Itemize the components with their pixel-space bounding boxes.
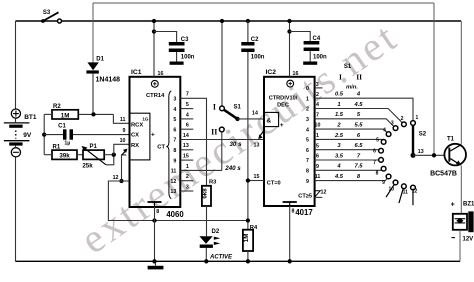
svg-text:13: 13 — [418, 149, 424, 155]
svg-text:7.5: 7.5 — [354, 164, 363, 170]
svg-text:9: 9 — [173, 158, 176, 164]
svg-text:12V: 12V — [463, 236, 474, 242]
svg-text:11: 11 — [120, 117, 126, 123]
svg-text:I: I — [339, 73, 342, 82]
svg-text:8: 8 — [306, 169, 309, 175]
svg-text:4017: 4017 — [295, 208, 312, 217]
svg-text:11: 11 — [315, 174, 321, 180]
svg-text:+: + — [151, 131, 155, 138]
svg-text:3: 3 — [391, 121, 394, 127]
svg-text:7: 7 — [306, 158, 309, 164]
svg-text:S3: S3 — [43, 10, 51, 16]
svg-text:9V: 9V — [23, 132, 32, 139]
svg-text:5: 5 — [186, 102, 189, 108]
svg-text:15: 15 — [183, 154, 189, 160]
svg-text:R3: R3 — [209, 179, 217, 185]
svg-text:RCX: RCX — [131, 123, 143, 129]
svg-text:5: 5 — [306, 138, 309, 144]
svg-text:11: 11 — [171, 169, 177, 175]
svg-text:5: 5 — [376, 137, 379, 143]
svg-text:1µ: 1µ — [64, 141, 70, 147]
svg-text:2: 2 — [186, 174, 189, 180]
svg-text:1M: 1M — [243, 234, 250, 243]
svg-text:4.5: 4.5 — [353, 102, 363, 108]
svg-text:16: 16 — [158, 71, 164, 77]
svg-text:S2: S2 — [419, 131, 427, 137]
svg-text:4060: 4060 — [166, 210, 184, 219]
svg-text:1: 1 — [316, 133, 319, 139]
svg-text:II: II — [356, 73, 362, 82]
svg-text:ACTIVE: ACTIVE — [209, 255, 233, 261]
svg-text:30 s: 30 s — [229, 141, 242, 148]
svg-text:13: 13 — [183, 143, 189, 149]
svg-text:25k: 25k — [82, 163, 93, 170]
svg-text:100n: 100n — [313, 54, 327, 60]
svg-text:5: 5 — [173, 117, 176, 123]
svg-text:BT1: BT1 — [24, 114, 37, 121]
svg-text:3: 3 — [316, 82, 319, 88]
svg-text:6k8: 6k8 — [202, 188, 209, 199]
svg-text:9: 9 — [382, 180, 385, 186]
svg-text:3.5: 3.5 — [335, 153, 344, 159]
svg-text:D2: D2 — [212, 229, 220, 235]
svg-text:C4: C4 — [313, 36, 321, 42]
svg-text:BZ1: BZ1 — [463, 202, 474, 208]
svg-text:9: 9 — [123, 128, 126, 134]
svg-text:RX: RX — [131, 143, 139, 149]
svg-text:CX: CX — [131, 133, 139, 139]
svg-text:CTR14: CTR14 — [146, 93, 165, 99]
svg-text:II: II — [211, 128, 217, 137]
svg-text:10: 10 — [315, 123, 321, 129]
svg-text:1N4148: 1N4148 — [96, 77, 121, 84]
svg-text:100n: 100n — [251, 54, 265, 60]
svg-text:11: 11 — [403, 190, 409, 196]
svg-text:240 s: 240 s — [224, 165, 241, 172]
svg-text:12: 12 — [113, 175, 119, 181]
svg-text:6.5: 6.5 — [354, 143, 363, 149]
svg-text:D1: D1 — [96, 57, 104, 63]
svg-text:2: 2 — [401, 116, 404, 122]
svg-text:4: 4 — [383, 128, 386, 134]
svg-text:10: 10 — [120, 138, 126, 144]
svg-text:8: 8 — [173, 148, 176, 154]
svg-text:2.5: 2.5 — [334, 133, 344, 139]
svg-text:3: 3 — [186, 184, 189, 190]
svg-text:DEC: DEC — [277, 102, 289, 108]
svg-text:CT: CT — [157, 145, 165, 151]
svg-text:13: 13 — [254, 142, 260, 148]
svg-text:9: 9 — [316, 164, 319, 170]
svg-text:12: 12 — [321, 189, 327, 195]
svg-text:4: 4 — [316, 102, 319, 108]
svg-text:3: 3 — [173, 97, 176, 103]
svg-text:4: 4 — [186, 112, 189, 118]
svg-text:5: 5 — [316, 143, 319, 149]
svg-text:100n: 100n — [181, 54, 195, 60]
svg-text:I: I — [213, 102, 216, 111]
svg-text:2: 2 — [316, 92, 319, 98]
svg-text:6: 6 — [186, 123, 189, 129]
svg-text:1M: 1M — [61, 112, 70, 119]
svg-text:1: 1 — [186, 164, 189, 170]
svg-text:C1: C1 — [58, 123, 66, 129]
svg-text:9: 9 — [306, 179, 309, 185]
svg-text:10: 10 — [389, 186, 395, 192]
svg-text:13: 13 — [170, 189, 176, 195]
svg-text:14: 14 — [252, 111, 258, 117]
svg-text:BC547B: BC547B — [430, 171, 457, 178]
svg-text:12: 12 — [412, 188, 418, 194]
svg-text:1: 1 — [337, 102, 340, 108]
svg-text:C3: C3 — [181, 37, 189, 43]
svg-text:6: 6 — [316, 154, 319, 160]
svg-text:0: 0 — [306, 86, 309, 92]
svg-text:S1: S1 — [344, 64, 352, 70]
svg-text:14: 14 — [183, 133, 189, 139]
svg-text:15: 15 — [254, 174, 260, 180]
svg-text:7: 7 — [186, 92, 189, 98]
svg-text:+: + — [451, 202, 455, 209]
svg-text:C2: C2 — [251, 37, 259, 43]
svg-text:7: 7 — [173, 138, 176, 144]
svg-text:0.5: 0.5 — [335, 92, 344, 98]
svg-text:2: 2 — [306, 107, 309, 113]
svg-text:4.5: 4.5 — [334, 174, 344, 180]
svg-text:IC2: IC2 — [266, 69, 277, 76]
svg-text:+: + — [280, 122, 284, 129]
svg-text:6: 6 — [306, 148, 309, 154]
svg-text:&: & — [266, 118, 271, 125]
svg-text:IC1: IC1 — [131, 69, 142, 76]
svg-text:5.5: 5.5 — [354, 123, 363, 129]
svg-text:4: 4 — [173, 107, 176, 113]
svg-text:16: 16 — [293, 71, 299, 77]
svg-text:3: 3 — [306, 117, 309, 123]
svg-text:CT=0: CT=0 — [267, 180, 281, 186]
svg-text:1G: 1G — [142, 117, 149, 122]
svg-text:1: 1 — [416, 115, 419, 121]
svg-text:12: 12 — [170, 179, 176, 185]
svg-text:6: 6 — [173, 127, 176, 133]
svg-text:4: 4 — [306, 127, 309, 133]
svg-text:39k: 39k — [59, 153, 70, 160]
svg-text:8: 8 — [156, 209, 159, 215]
svg-text:7: 7 — [373, 160, 376, 166]
svg-text:min.: min. — [346, 85, 358, 91]
svg-text:8: 8 — [376, 171, 379, 177]
svg-text:7: 7 — [316, 112, 319, 118]
svg-text:8: 8 — [292, 209, 295, 215]
svg-text:6: 6 — [373, 148, 376, 154]
svg-text:CT≥5: CT≥5 — [298, 193, 312, 199]
svg-text:1.5: 1.5 — [335, 112, 344, 118]
svg-text:S1: S1 — [234, 104, 242, 110]
svg-text:T1: T1 — [447, 137, 455, 143]
svg-text:CTRDIV10/: CTRDIV10/ — [269, 96, 298, 102]
svg-text:1: 1 — [306, 96, 309, 102]
svg-text:R2: R2 — [53, 104, 61, 110]
